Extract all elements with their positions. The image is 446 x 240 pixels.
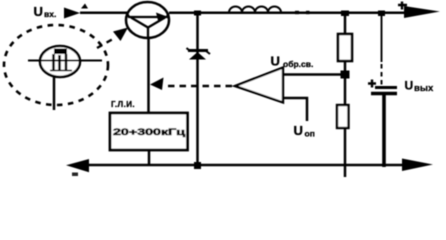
svg-text:U: U — [34, 4, 43, 19]
svg-text:U: U — [271, 54, 280, 69]
svg-text:вых: вых — [414, 83, 434, 94]
svg-text:U: U — [294, 123, 303, 138]
svg-text:обр.св.: обр.св. — [283, 59, 313, 69]
svg-text:20+300кГц: 20+300кГц — [113, 127, 185, 138]
svg-text:вх.: вх. — [44, 9, 56, 19]
svg-text:оп: оп — [305, 129, 315, 139]
svg-text:U: U — [405, 79, 414, 93]
svg-text:Г.Л.И.: Г.Л.И. — [111, 100, 135, 109]
